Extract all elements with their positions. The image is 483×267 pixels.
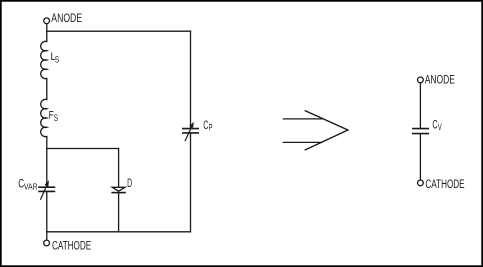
wire bottom rail (47, 231, 191, 233)
wire FS to CVAR top plate (46, 137, 48, 188)
inductor LS (41, 41, 47, 78)
svg-text:CATHODE: CATHODE (425, 179, 464, 191)
svg-text:CATHODE: CATHODE (52, 241, 91, 253)
capacitor CVAR plates (39, 186, 54, 188)
inductor FS (41, 99, 47, 136)
wire CP branch lower (190, 133, 192, 232)
svg-text:P: P (209, 123, 213, 133)
wire CV to cathode (419, 134, 421, 180)
wire mid rail to diode branch (47, 148, 119, 150)
svg-text:V: V (438, 122, 442, 132)
wire CVAR to bottom rail (46, 191, 48, 231)
wire top rail (47, 30, 191, 32)
wire anode to CV (419, 83, 421, 128)
svg-text:S: S (55, 55, 59, 65)
svg-text:ANODE: ANODE (425, 75, 456, 87)
wire LS to FS (46, 79, 48, 100)
wire diode branch lower (118, 193, 120, 231)
right equivalent circuit (413, 77, 429, 186)
wire CP branch upper (190, 31, 192, 128)
svg-text:ANODE: ANODE (51, 13, 82, 25)
capacitor CVAR arrowhead (45, 180, 49, 186)
capacitor CP arrow (185, 128, 191, 141)
node CATHODE (left terminal) (44, 240, 50, 246)
capacitor CP arrowhead (189, 122, 193, 128)
wire diode branch upper (118, 149, 120, 188)
node ANODE (right terminal) (418, 77, 424, 83)
svg-text:D: D (127, 178, 132, 190)
diode D cathode bar (112, 192, 125, 194)
wire anode to top rail (46, 24, 48, 42)
wire bottom rail to cathode (46, 232, 48, 240)
capacitor CV plates (413, 128, 429, 130)
node ANODE (left terminal) (44, 18, 50, 24)
svg-text:VAR: VAR (24, 182, 38, 192)
svg-text:S: S (54, 113, 58, 123)
node CATHODE (right terminal) (418, 180, 424, 186)
implication arrow (283, 111, 348, 151)
diode D triangle (112, 187, 125, 191)
capacitor CP plates (183, 128, 198, 130)
capacitor CVAR arrow (41, 186, 47, 199)
